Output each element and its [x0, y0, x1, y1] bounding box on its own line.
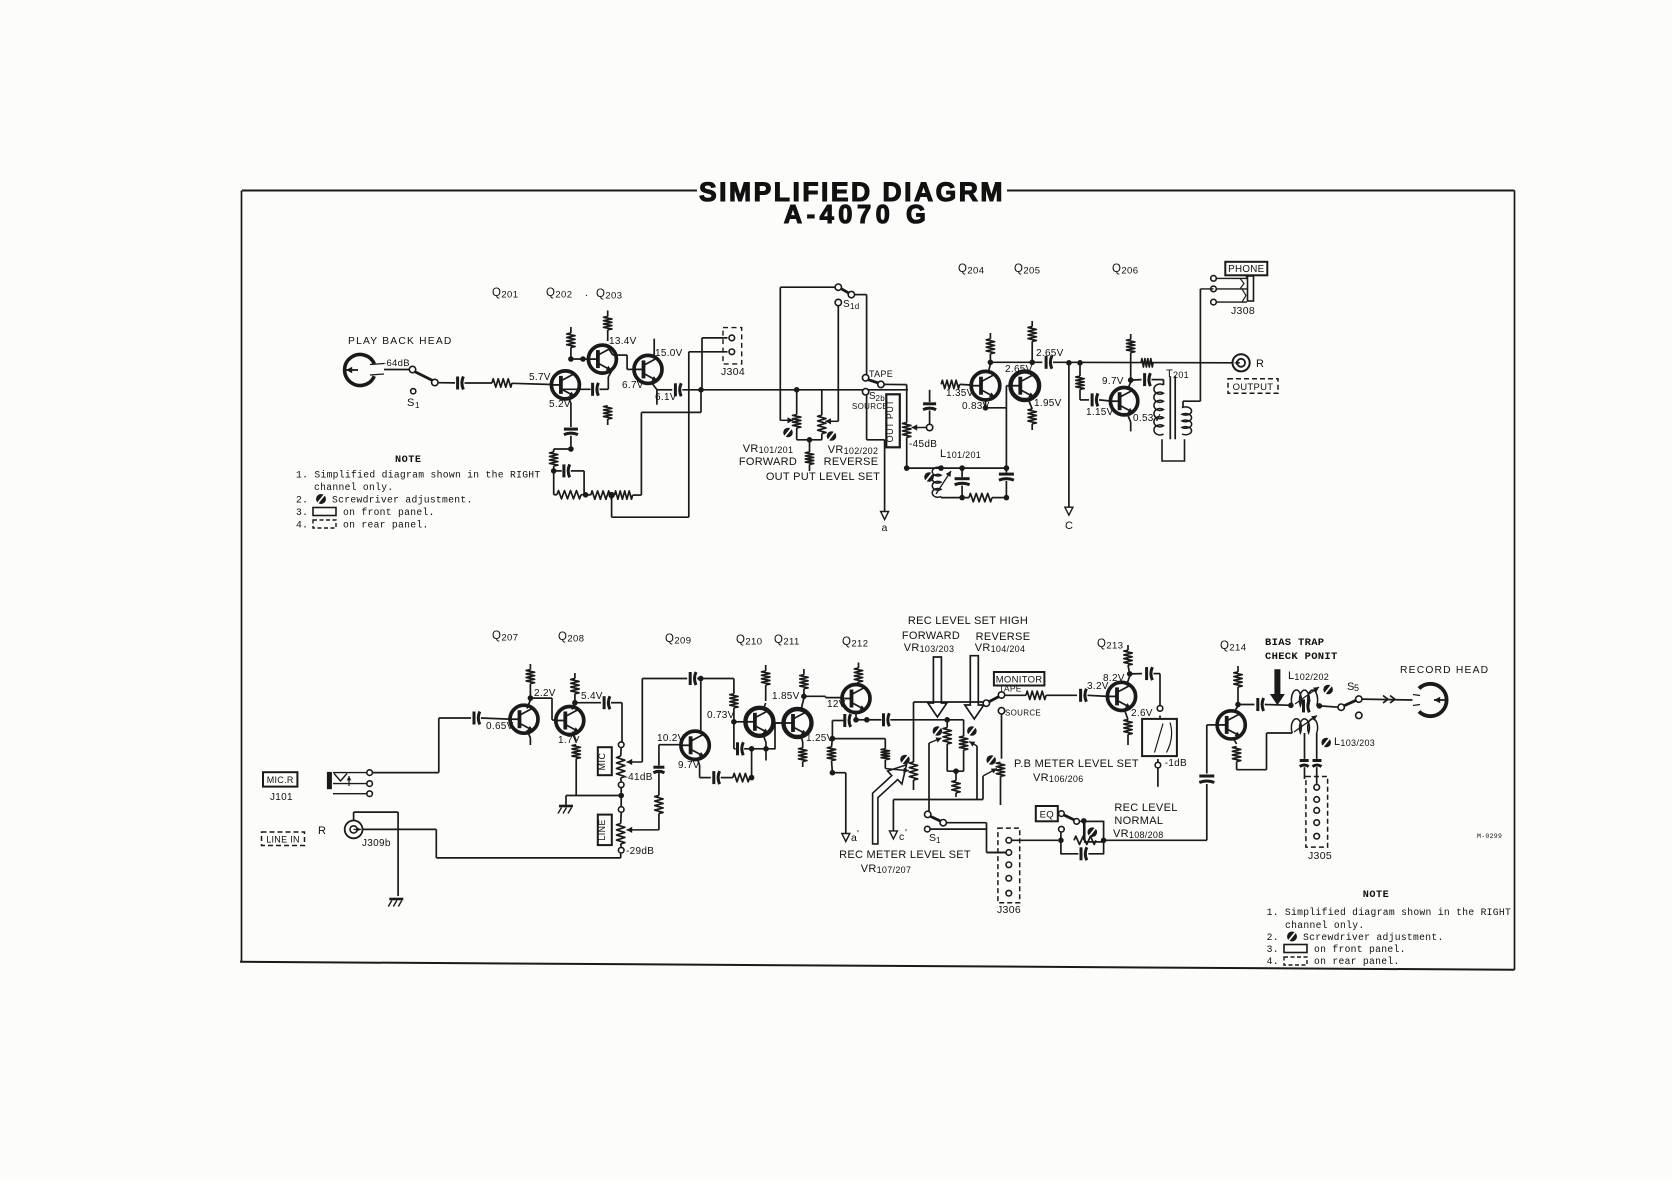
svg-text:c: c — [899, 831, 905, 843]
svg-text:REC METER LEVEL SET: REC METER LEVEL SET — [839, 849, 971, 861]
svg-text:1d: 1d — [850, 302, 860, 311]
svg-text:S: S — [843, 299, 850, 310]
svg-text:MIC: MIC — [597, 753, 607, 771]
svg-text:1.95V: 1.95V — [1034, 398, 1062, 409]
svg-text:1: 1 — [936, 836, 941, 845]
svg-text:P.B METER LEVEL SET: P.B METER LEVEL SET — [1014, 758, 1139, 770]
svg-text:VR106/206: VR106/206 — [1033, 772, 1084, 784]
svg-text:Q209: Q209 — [665, 633, 691, 647]
svg-text:OUT PUT: OUT PUT — [885, 400, 895, 443]
svg-text:Q212: Q212 — [842, 636, 868, 650]
svg-text:4.: 4. — [1267, 956, 1279, 967]
svg-text:6.7V: 6.7V — [622, 380, 644, 391]
svg-text:0.73V: 0.73V — [707, 710, 735, 721]
svg-text:13.4V: 13.4V — [609, 336, 637, 347]
svg-text:Q203: Q203 — [596, 288, 622, 302]
svg-text:R: R — [318, 825, 326, 837]
svg-text:MIC.R: MIC.R — [267, 775, 294, 785]
svg-text:PHONE: PHONE — [1228, 264, 1265, 275]
svg-text:Screwdriver adjustment.: Screwdriver adjustment. — [332, 495, 473, 506]
svg-text:REC LEVEL SET HIGH: REC LEVEL SET HIGH — [908, 615, 1028, 627]
svg-text:PLAY BACK HEAD: PLAY BACK HEAD — [348, 336, 453, 347]
svg-text:-29dB: -29dB — [626, 846, 654, 857]
svg-text:LINE: LINE — [597, 819, 607, 841]
svg-text:': ' — [857, 829, 859, 840]
svg-text:5.4V: 5.4V — [581, 691, 603, 702]
svg-text:1.15V: 1.15V — [1086, 407, 1114, 418]
svg-text:VR107/207: VR107/207 — [861, 863, 912, 875]
svg-text:0.83V: 0.83V — [962, 401, 990, 412]
svg-text:': ' — [905, 828, 907, 839]
svg-text:RECORD HEAD: RECORD HEAD — [1400, 665, 1489, 676]
svg-text:9.7V: 9.7V — [1102, 376, 1124, 387]
svg-text:Q210: Q210 — [736, 634, 762, 648]
svg-text:FORWARD: FORWARD — [739, 456, 797, 468]
svg-text:8.2V: 8.2V — [1103, 673, 1125, 684]
svg-text:5.7V: 5.7V — [529, 372, 551, 383]
svg-text:2.6V: 2.6V — [1131, 708, 1153, 719]
svg-text:2.: 2. — [1267, 932, 1279, 943]
svg-text:VR101/201: VR101/201 — [743, 443, 794, 455]
svg-text:OUT PUT LEVEL SET: OUT PUT LEVEL SET — [766, 471, 880, 483]
svg-text:on rear panel.: on rear panel. — [343, 520, 429, 531]
svg-text:J306: J306 — [997, 904, 1021, 916]
svg-text:on rear panel.: on rear panel. — [1314, 956, 1400, 967]
svg-text:Q201: Q201 — [492, 287, 518, 301]
svg-text:A-4070 G: A-4070 G — [784, 201, 931, 229]
svg-text:REC LEVEL: REC LEVEL — [1114, 802, 1177, 814]
svg-text:6.1V: 6.1V — [655, 392, 677, 403]
svg-text:NORMAL: NORMAL — [1114, 815, 1163, 827]
svg-text:on front panel.: on front panel. — [1314, 944, 1406, 955]
svg-text:REVERSE: REVERSE — [824, 456, 879, 468]
svg-text:R: R — [1256, 358, 1264, 370]
svg-text:S: S — [407, 397, 415, 409]
svg-text:.: . — [585, 287, 588, 299]
svg-text:-41dB: -41dB — [625, 772, 653, 783]
svg-text:on front panel.: on front panel. — [343, 507, 435, 518]
svg-text:VR104/204: VR104/204 — [975, 642, 1026, 654]
svg-text:2.: 2. — [296, 495, 308, 506]
svg-text:1.85V: 1.85V — [772, 691, 800, 702]
svg-text:BIAS TRAP: BIAS TRAP — [1265, 637, 1324, 649]
svg-text:CHECK PONIT: CHECK PONIT — [1265, 651, 1338, 663]
svg-text:0.65V: 0.65V — [486, 721, 514, 732]
svg-text:SOURCE: SOURCE — [1005, 709, 1041, 718]
svg-text:NOTE: NOTE — [1363, 890, 1389, 901]
svg-text:LINE IN: LINE IN — [266, 835, 300, 845]
svg-text:4.: 4. — [296, 520, 308, 531]
svg-text:Q214: Q214 — [1220, 640, 1246, 654]
svg-text:Q205: Q205 — [1014, 263, 1040, 277]
svg-text:1: 1 — [415, 401, 420, 410]
svg-text:VR102/202: VR102/202 — [828, 444, 879, 456]
svg-text:1. Simplified diagram shown in: 1. Simplified diagram shown in the RIGHT — [296, 470, 541, 481]
svg-text:-45dB: -45dB — [909, 439, 937, 450]
svg-text:L103/203: L103/203 — [1334, 736, 1375, 748]
svg-text:VR103/203: VR103/203 — [904, 642, 955, 654]
svg-text:3.: 3. — [1267, 944, 1279, 955]
svg-text:Screwdriver adjustment.: Screwdriver adjustment. — [1303, 932, 1444, 943]
svg-text:3.: 3. — [296, 507, 308, 518]
svg-text:NOTE: NOTE — [395, 455, 421, 466]
svg-text:-64dB: -64dB — [383, 358, 410, 369]
svg-text:J308: J308 — [1231, 305, 1255, 317]
svg-text:channel only.: channel only. — [1285, 920, 1364, 931]
svg-text:Q202: Q202 — [546, 287, 572, 301]
svg-text:M-0299: M-0299 — [1477, 833, 1502, 840]
svg-text:Q213: Q213 — [1097, 638, 1123, 652]
svg-text:2.65V: 2.65V — [1036, 348, 1064, 359]
svg-text:channel only.: channel only. — [314, 482, 393, 493]
svg-text:-1dB: -1dB — [1165, 758, 1187, 769]
svg-text:a: a — [882, 522, 888, 534]
svg-text:1. Simplified diagram shown in: 1. Simplified diagram shown in the RIGHT — [1267, 907, 1512, 918]
svg-text:Q211: Q211 — [774, 634, 800, 648]
svg-text:15.0V: 15.0V — [655, 348, 683, 359]
svg-text:Q208: Q208 — [558, 631, 584, 645]
svg-text:OUTPUT: OUTPUT — [1233, 382, 1274, 393]
svg-text:2.2V: 2.2V — [534, 688, 556, 699]
svg-text:5.2V: 5.2V — [549, 399, 571, 410]
svg-text:1.25V: 1.25V — [806, 733, 834, 744]
svg-text:SOURCE: SOURCE — [852, 402, 888, 411]
svg-text:J309b: J309b — [362, 838, 391, 849]
svg-text:Q204: Q204 — [958, 263, 984, 277]
svg-text:1.35V: 1.35V — [946, 388, 974, 399]
svg-text:L102/202: L102/202 — [1288, 670, 1329, 682]
svg-text:L101/201: L101/201 — [940, 448, 981, 460]
svg-text:C: C — [1065, 520, 1073, 532]
svg-text:TAPE: TAPE — [869, 369, 893, 379]
svg-text:J101: J101 — [270, 792, 293, 803]
svg-text:J305: J305 — [1308, 850, 1332, 862]
svg-text:T201: T201 — [1166, 368, 1189, 380]
svg-text:9.7V: 9.7V — [678, 760, 700, 771]
svg-text:5: 5 — [1354, 683, 1359, 693]
svg-text:Q206: Q206 — [1112, 263, 1138, 277]
svg-text:J304: J304 — [721, 366, 745, 378]
svg-text:FORWARD: FORWARD — [902, 630, 960, 642]
svg-text:Q207: Q207 — [492, 630, 518, 644]
svg-text:EQ: EQ — [1040, 810, 1054, 821]
svg-text:VR108/208: VR108/208 — [1113, 828, 1164, 840]
